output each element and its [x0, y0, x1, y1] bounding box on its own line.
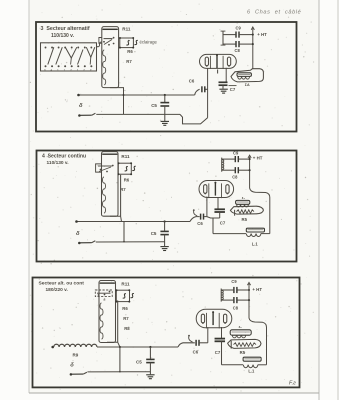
scan right margin shade [337, 0, 339, 400]
wire loop to rail [107, 342, 120, 347]
resistor R11 (dropper) [102, 152, 119, 217]
resistor R11 (line-cord dropper) [102, 27, 119, 88]
svg-text:R11: R11 [121, 154, 130, 159]
svg-text:C7: C7 [230, 87, 236, 92]
svg-text:+ HT: + HT [257, 32, 267, 37]
svg-text:R5: R5 [242, 217, 248, 222]
resistor R5 [230, 206, 263, 214]
svg-text:R7: R7 [123, 316, 129, 321]
pilot lamps [118, 163, 131, 174]
pilot lamps [116, 290, 129, 301]
svg-text:C5: C5 [151, 231, 157, 236]
wire lower line [87, 371, 150, 373]
rectifier tube V1 [196, 309, 232, 328]
capacitor C5 [164, 95, 166, 102]
wire junction vertical [123, 222, 125, 242]
wire junction vertical [119, 347, 121, 372]
choke L1 [222, 364, 244, 366]
svg-text:C8: C8 [233, 306, 239, 311]
svg-text:3 Secteur alternatif: 3 Secteur alternatif [41, 26, 90, 32]
capacitor C7 [219, 82, 228, 85]
svg-text:Secteur alt. ou cont: Secteur alt. ou cont [39, 281, 85, 287]
svg-text:F.г: F.г [289, 381, 296, 387]
tube pins [207, 69, 209, 118]
pilot lamps (eclairage) [118, 37, 119, 39]
wire selector to R11 [97, 42, 102, 47]
svg-text:L.1: L.1 [252, 241, 259, 246]
svg-text:C9: C9 [231, 279, 237, 284]
rectifier tube V1 [200, 54, 237, 68]
panel 1 frame [36, 22, 297, 132]
svg-text:+ HT: + HT [253, 156, 263, 161]
svg-text:ΣA: ΣA [245, 83, 250, 87]
svg-text:ε₁: ε₁ [242, 196, 246, 200]
wire mains rail [79, 94, 195, 96]
svg-text:δ: δ [70, 362, 74, 368]
wire lamps down [117, 300, 119, 342]
wire loop to rail [110, 216, 122, 221]
svg-text:C6: C6 [189, 79, 195, 84]
svg-text:R6: R6 [122, 306, 128, 311]
rectifier tube V1 [199, 181, 234, 198]
svg-text:C9: C9 [236, 26, 242, 31]
capacitor C5 [149, 346, 151, 348]
wire HT rail [252, 28, 254, 68]
tube pins [206, 197, 208, 217]
resistor R5 [228, 339, 261, 348]
page right edge line [318, 0, 320, 400]
svg-text:C7: C7 [215, 350, 221, 355]
svg-text:a: a [104, 298, 106, 302]
node rail/C5 [164, 94, 166, 96]
wire mains rail [51, 346, 54, 349]
page left edge line [28, 0, 30, 393]
wire loop to junction [110, 88, 124, 115]
wire HT rail [250, 157, 270, 234]
svg-text:R11: R11 [122, 27, 131, 32]
svg-text:+ HT: + HT [252, 287, 262, 292]
ground [146, 375, 154, 379]
svg-text:C8: C8 [235, 48, 241, 53]
heater winding EA [231, 69, 263, 82]
svg-text:δ: δ [79, 103, 83, 109]
capacitor C6 [190, 217, 200, 222]
svg-text:C6: C6 [193, 349, 199, 354]
svg-text:R5: R5 [240, 350, 246, 355]
tube pins [207, 327, 209, 343]
svg-text:R6: R6 [127, 49, 133, 54]
capacitor C5 [164, 222, 166, 231]
ground [219, 89, 227, 93]
capacitor C7 [214, 209, 225, 212]
panel 2 frame [37, 151, 297, 262]
page bottom edge line [29, 392, 319, 394]
svg-text:C6: C6 [197, 221, 203, 226]
wire lamps down [120, 175, 122, 216]
ground [160, 247, 168, 251]
wire HT rail [249, 284, 267, 365]
svg-text:ε₂: ε₂ [239, 325, 243, 329]
resistor R9 [54, 344, 97, 347]
wire lower line [96, 113, 180, 115]
svg-text:180/220 v.: 180/220 v. [46, 287, 68, 293]
wire mains rail [77, 221, 191, 223]
svg-text:C5: C5 [136, 359, 142, 364]
svg-text:6 Chas et câblé: 6 Chas et câblé [247, 10, 301, 16]
svg-text:110/130 v.: 110/130 v. [47, 160, 69, 166]
choke L1 [213, 233, 246, 235]
svg-text:R6: R6 [124, 178, 130, 183]
capacitors C9 C8 [221, 158, 223, 172]
capacitor C6 [195, 89, 200, 95]
svg-text:R11: R11 [121, 282, 130, 287]
panel 3 frame [33, 278, 300, 388]
svg-text:4 Secteur continu: 4 Secteur continu [42, 154, 86, 160]
wire lower line [96, 241, 165, 243]
svg-text:δ: δ [76, 231, 80, 237]
capacitors C9 C8 [220, 289, 222, 302]
wire to L1 [207, 217, 220, 234]
ground [161, 121, 169, 125]
svg-text:C7: C7 [220, 220, 226, 225]
svg-text:L.1: L.1 [248, 368, 255, 373]
svg-text:R7: R7 [126, 59, 132, 64]
svg-text:C5: C5 [151, 103, 157, 108]
svg-text:éclairage: éclairage [140, 40, 158, 45]
voltage selector S1 [41, 43, 97, 71]
capacitor C6 [178, 343, 195, 347]
capacitors C9 C8 [222, 31, 224, 45]
svg-text:R9: R9 [73, 353, 79, 358]
svg-text:C9: C9 [233, 150, 239, 155]
svg-text:110/130 v.: 110/130 v. [51, 33, 75, 39]
svg-text:C8: C8 [232, 174, 238, 179]
resistor R11 (dropper) [99, 281, 116, 343]
capacitor C7 [215, 339, 226, 342]
svg-text:R8: R8 [124, 326, 130, 331]
